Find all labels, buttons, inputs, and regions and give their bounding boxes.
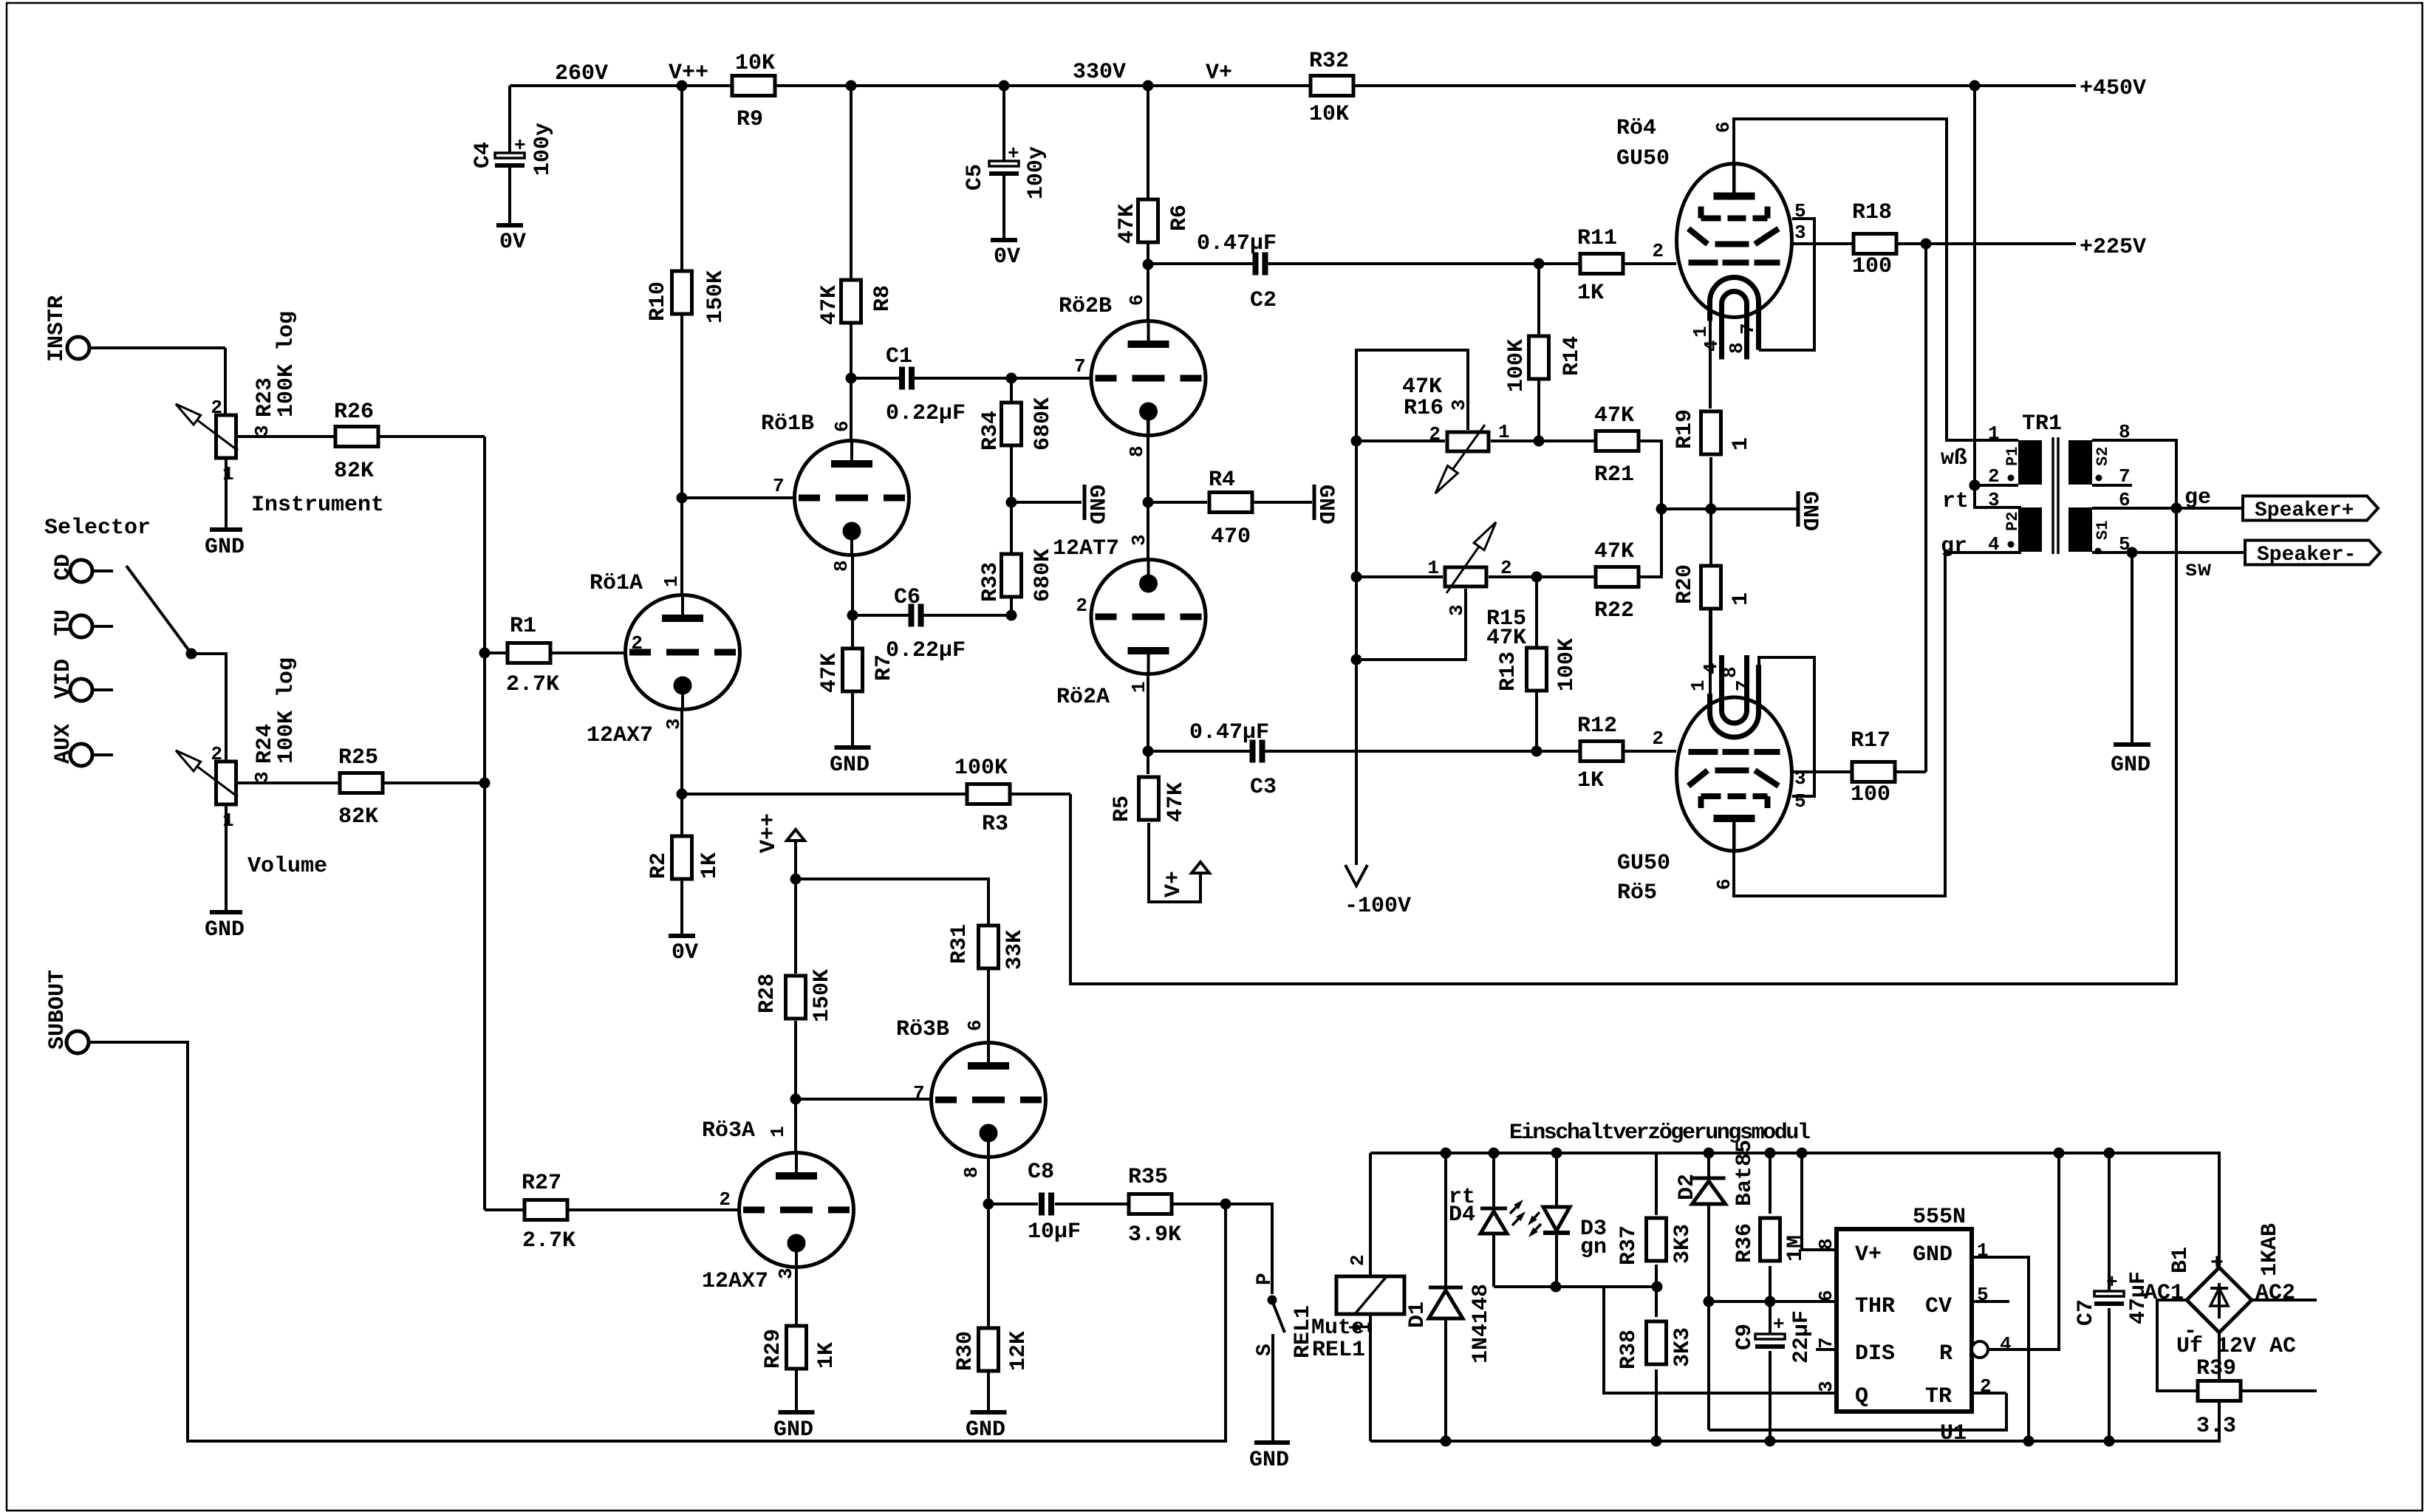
svg-text:DIS: DIS (1855, 1341, 1895, 1366)
connector CD (51, 554, 113, 582)
svg-text:R9: R9 (737, 107, 763, 132)
power -100V arrow (1345, 865, 1411, 919)
svg-text:GU50: GU50 (1617, 851, 1670, 876)
svg-text:GND: GND (966, 1417, 1005, 1443)
svg-text:3: 3 (251, 425, 273, 437)
svg-text:1: 1 (1729, 592, 1754, 606)
potentiometer R24 100K log (176, 657, 299, 912)
power V+ arrow at R5 (1161, 862, 1209, 897)
svg-text:TU: TU (51, 609, 76, 636)
capacitor C6 0.22uF (847, 585, 1017, 663)
svg-text:gn: gn (1580, 1235, 1607, 1260)
resistor R4 470 (1143, 468, 1313, 550)
svg-text:2: 2 (1988, 465, 2000, 488)
svg-text:Rö1B: Rö1B (761, 411, 814, 437)
svg-text:12AX7: 12AX7 (587, 723, 653, 748)
svg-text:3.3: 3.3 (2196, 1414, 2236, 1439)
svg-text:6: 6 (1712, 121, 1735, 133)
svg-text:100y: 100y (1024, 146, 1049, 199)
svg-text:Rö5: Rö5 (1617, 880, 1657, 906)
svg-text:0V: 0V (672, 940, 698, 965)
svg-text:R36: R36 (1732, 1223, 1757, 1263)
connector SUBOUT (45, 970, 89, 1053)
wire 260V/330V top rail (510, 84, 2076, 87)
resistor R20 1 (1673, 509, 1754, 665)
svg-text:D1: D1 (1405, 1301, 1430, 1328)
svg-text:150K: 150K (703, 270, 728, 324)
svg-text:3: 3 (1448, 399, 1470, 411)
resistor R2 1K (646, 710, 722, 936)
wire input bus x=656 (479, 437, 491, 1210)
wire D2/TR row (1709, 1393, 2006, 1430)
svg-text:C3: C3 (1250, 775, 1277, 800)
wire feedback from R3 to speaker node (1070, 510, 2176, 984)
svg-text:R17: R17 (1851, 728, 1890, 753)
svg-text:GND: GND (205, 917, 245, 943)
svg-text:ge: ge (2184, 485, 2211, 510)
svg-text:1: 1 (1988, 423, 2000, 445)
svg-text:260V: 260V (555, 61, 608, 86)
svg-text:R4: R4 (1209, 468, 1235, 493)
tube Rö2A (1056, 420, 1206, 710)
ground 0V of C4 (496, 225, 526, 255)
svg-text:+: + (1008, 143, 1019, 165)
potentiometer R23 100K log (176, 311, 299, 530)
wire TR1 pin7 stub (2092, 484, 2132, 487)
svg-text:3: 3 (1794, 222, 1806, 244)
rectifier B1 1KAB (2144, 1223, 2295, 1344)
resistor R13 100K (1496, 577, 1579, 751)
svg-text:1: 1 (767, 1126, 789, 1138)
svg-text:6: 6 (964, 1019, 986, 1031)
svg-text:2: 2 (1076, 595, 1087, 617)
svg-text:S2: S2 (2094, 447, 2112, 466)
node 12AT7 label (1053, 536, 1119, 561)
svg-text:R32: R32 (1309, 49, 1349, 74)
potentiometer R16 47K (1351, 350, 1545, 493)
svg-text:1: 1 (1498, 421, 1510, 443)
connector TU (51, 609, 113, 637)
svg-text:1: 1 (1690, 326, 1712, 338)
resistor R18 100 (1791, 200, 1924, 279)
svg-text:22µF: 22µF (1789, 1310, 1814, 1364)
capacitor C5 100y (963, 86, 1049, 240)
svg-text:1: 1 (222, 463, 234, 485)
resistor R22 47K (1537, 509, 1661, 623)
svg-text:100K: 100K (954, 756, 1008, 781)
wire THR row (1709, 1300, 1837, 1303)
svg-text:V++: V++ (756, 813, 782, 853)
svg-text:6: 6 (1126, 294, 1148, 306)
node Volume label (247, 854, 327, 879)
svg-text:INSTR: INSTR (44, 295, 69, 362)
resistor R26 82K (238, 400, 485, 484)
svg-text:R28: R28 (755, 974, 780, 1013)
svg-text:8: 8 (1719, 666, 1741, 678)
svg-text:2: 2 (211, 743, 222, 765)
svg-text:V+: V+ (1161, 871, 1186, 897)
ground GND of R30 (966, 1412, 1007, 1443)
svg-text:150K: 150K (810, 969, 835, 1022)
capacitor C7 47uF (2074, 1148, 2151, 1447)
svg-text:R8: R8 (870, 285, 895, 312)
tube Rö3B (796, 1017, 1046, 1178)
svg-text:100K: 100K (1554, 638, 1579, 691)
wire AC1 to R39 (2157, 1300, 2198, 1391)
resistor R36 1M (1732, 1148, 1808, 1307)
svg-text:R10: R10 (646, 281, 671, 321)
svg-text:R12: R12 (1577, 714, 1617, 739)
svg-text:Volume: Volume (247, 854, 327, 879)
svg-text:6: 6 (831, 420, 853, 432)
resistor R3 100K (682, 756, 1070, 837)
svg-text:47K: 47K (1115, 204, 1140, 244)
ground of R4 (1313, 485, 1338, 524)
svg-text:P2: P2 (2003, 512, 2022, 531)
wire LED cathode row (1494, 1282, 1663, 1293)
selector switch arm from CD (126, 566, 226, 760)
resistor R27 2.7K (485, 1171, 739, 1253)
svg-text:8: 8 (1815, 1238, 1837, 1250)
node Uf 12V AC label (2176, 1334, 2296, 1359)
svg-text:GU50: GU50 (1616, 146, 1670, 171)
svg-text:33K: 33K (1002, 930, 1028, 970)
switch REL1 mute contact (1226, 1204, 1285, 1441)
ground GND of R7 (830, 748, 871, 778)
svg-text:1K: 1K (1577, 281, 1604, 306)
ground GND of R23 (205, 530, 245, 560)
node 330V label (999, 60, 1127, 92)
resistor R34 680K (978, 373, 1056, 503)
svg-text:CV: CV (1925, 1294, 1952, 1319)
svg-text:3: 3 (1988, 489, 2000, 511)
svg-text:47K: 47K (1594, 539, 1634, 564)
wire R35 junction down to mute rail (1224, 1204, 1227, 1441)
svg-text:100: 100 (1852, 254, 1892, 279)
svg-text:Q: Q (1855, 1384, 1868, 1409)
ground GND of R29 (773, 1412, 815, 1443)
svg-text:3K3: 3K3 (1670, 1327, 1695, 1367)
svg-text:0.47µF: 0.47µF (1189, 720, 1269, 745)
svg-text:0.22µF: 0.22µF (886, 638, 966, 663)
capacitor C4 100y (471, 86, 556, 225)
svg-text:R21: R21 (1594, 462, 1634, 488)
resistor R11 1K (1534, 226, 1677, 306)
svg-text:R31: R31 (947, 924, 972, 964)
svg-text:V++: V++ (669, 61, 708, 86)
svg-text:AC2: AC2 (2255, 1281, 2295, 1306)
node V+ label at rail (1143, 61, 1233, 92)
svg-text:GND: GND (1913, 1242, 1953, 1268)
tube Rö1B (677, 378, 909, 572)
svg-text:C1: C1 (886, 344, 912, 369)
svg-text:THR: THR (1855, 1294, 1895, 1319)
svg-text:U1: U1 (1940, 1421, 1967, 1446)
tube Rö4 GU50 (1616, 116, 1806, 360)
resistor R29 1K (761, 1252, 839, 1412)
svg-text:GND: GND (1313, 485, 1338, 524)
svg-text:7: 7 (913, 1082, 925, 1104)
wire Rö4 cathode to R19 (1709, 302, 1712, 408)
resistor R14 100K (1504, 264, 1585, 441)
svg-text:100y: 100y (530, 123, 556, 176)
svg-text:555N: 555N (1913, 1205, 1966, 1230)
resistor R38 3K3 (1616, 1287, 1695, 1447)
transformer TR1 (1941, 411, 2131, 559)
svg-text:1N4148: 1N4148 (1469, 1284, 1494, 1364)
wire +450V down to TR1 pin2/pin3 (1969, 86, 2022, 507)
svg-text:7: 7 (1737, 323, 1759, 335)
svg-text:GND: GND (1249, 1448, 1289, 1473)
ground of R34/R33 junction (1006, 485, 1109, 524)
resistor R37 3K3 (1616, 1153, 1695, 1287)
svg-text:R39: R39 (2196, 1356, 2236, 1381)
svg-text:2: 2 (1500, 557, 1512, 579)
svg-text:5: 5 (1794, 790, 1806, 813)
ground 0V of R2 (669, 936, 698, 965)
resistor R30 12K (953, 1142, 1031, 1412)
svg-text:680K: 680K (1031, 397, 1056, 451)
svg-text:R: R (1939, 1341, 1953, 1366)
svg-text:2.7K: 2.7K (506, 672, 559, 697)
capacitor C9 22uF (1732, 1301, 1814, 1447)
svg-text:CD: CD (51, 554, 76, 581)
svg-text:8: 8 (1726, 342, 1748, 354)
svg-text:R33: R33 (978, 562, 1003, 602)
svg-text:100K log: 100K log (274, 657, 299, 764)
diode D1 1N4148 (1405, 1148, 1494, 1447)
svg-text:R3: R3 (982, 812, 1008, 837)
node 260V label (555, 61, 608, 86)
svg-text:47K: 47K (1594, 403, 1634, 428)
wire TR1 pin5 speaker- row (2092, 547, 2245, 584)
svg-text:2: 2 (1652, 728, 1664, 750)
svg-text:VID: VID (51, 659, 76, 699)
wire Rö4 anode to TR1 pin1 (1734, 119, 2018, 440)
wire SUBOUT to mute rail (89, 1042, 1226, 1441)
LED D4 rt (1449, 1148, 1526, 1287)
svg-text:1: 1 (1687, 680, 1709, 691)
svg-text:R22: R22 (1594, 598, 1634, 623)
svg-text:B1: B1 (2168, 1247, 2193, 1273)
svg-text:Rö2A: Rö2A (1056, 685, 1110, 710)
junction dot R8 column at rail (846, 81, 857, 92)
resistor R19 1 (1673, 409, 1754, 509)
svg-text:3: 3 (1815, 1381, 1837, 1392)
wire module GND bottom rail (1370, 1333, 2219, 1441)
tube Rö1A (587, 498, 740, 748)
svg-text:1: 1 (222, 810, 234, 832)
svg-text:82K: 82K (334, 459, 374, 484)
svg-text:Selector: Selector (44, 516, 151, 541)
svg-text:10K: 10K (735, 51, 775, 76)
resistor R1 2.7K (485, 614, 625, 697)
svg-text:P: P (1254, 1273, 1277, 1285)
svg-text:3: 3 (1128, 534, 1150, 546)
capacitor C1 0.22uF (846, 344, 1012, 426)
svg-text:C7: C7 (2074, 1299, 2099, 1326)
svg-text:47K: 47K (1486, 626, 1526, 651)
wire module V+ top rail (1370, 1153, 2219, 1268)
ground 0V of C5 (991, 240, 1020, 270)
svg-text:3.9K: 3.9K (1128, 1222, 1181, 1248)
svg-text:D4: D4 (1449, 1203, 1475, 1228)
svg-text:GND: GND (773, 1417, 813, 1443)
svg-text:1K: 1K (1577, 768, 1604, 793)
svg-text:47K: 47K (817, 285, 842, 325)
svg-text:AUX: AUX (51, 724, 76, 764)
node Selector label (44, 516, 151, 541)
svg-text:+450V: +450V (2080, 76, 2146, 101)
wire V++ to R31 (790, 874, 989, 925)
svg-text:R20: R20 (1673, 564, 1698, 604)
connector VID (51, 659, 113, 701)
svg-text:100: 100 (1851, 782, 1890, 807)
resistor R7 47K (817, 555, 897, 748)
svg-text:3K3: 3K3 (1670, 1224, 1695, 1264)
node +225V label (1921, 235, 2147, 260)
svg-text:R19: R19 (1673, 409, 1698, 449)
svg-text:4: 4 (2000, 1333, 2012, 1355)
svg-text:7: 7 (1074, 355, 1086, 377)
ground GND of mute switch (1249, 1443, 1290, 1473)
resistor R35 3.9K (1128, 1165, 1231, 1248)
svg-text:7: 7 (773, 475, 785, 497)
wire TR1 pin6 speaker+ row (2092, 485, 2243, 514)
node V++ label at rail (669, 61, 708, 92)
svg-text:S1: S1 (2094, 521, 2112, 540)
tube Rö3A (702, 1094, 854, 1295)
svg-text:C9: C9 (1732, 1324, 1757, 1350)
wire Q output to LED row (1604, 1287, 1837, 1393)
svg-text:R16: R16 (1404, 396, 1444, 421)
svg-text:Bat85: Bat85 (1732, 1140, 1757, 1206)
svg-text:330V: 330V (1073, 60, 1126, 85)
svg-text:R13: R13 (1496, 651, 1521, 691)
junction dot TR1 pin2 (1969, 480, 1981, 491)
relay coil REL1 (1291, 1153, 1404, 1441)
LED D3 gn (1528, 1148, 1607, 1287)
tube Rö5 GU50 (1617, 655, 1806, 906)
svg-text:R26: R26 (334, 400, 374, 425)
svg-text:R37: R37 (1616, 1225, 1641, 1265)
svg-text:8: 8 (830, 560, 853, 572)
svg-text:TR1: TR1 (2022, 411, 2062, 437)
wire TR1 pin8 to speaker+ (2092, 440, 2176, 510)
capacitor C8 10uF (988, 1160, 1128, 1245)
svg-text:Rö4: Rö4 (1616, 116, 1656, 141)
resistor R17 100 (1791, 728, 1926, 807)
resistor R12 1K (1531, 714, 1677, 793)
svg-text:C4: C4 (471, 142, 496, 168)
wire +225V rail down to R17 (1924, 244, 1927, 772)
connector Speaker- flag (2245, 541, 2380, 567)
svg-text:47K: 47K (1402, 374, 1442, 400)
svg-text:S: S (1254, 1344, 1277, 1356)
svg-text:47K: 47K (817, 653, 842, 693)
svg-text:2: 2 (1429, 423, 1441, 445)
svg-text:R11: R11 (1577, 226, 1617, 251)
svg-text:3: 3 (1446, 604, 1468, 616)
svg-text:1M: 1M (1783, 1235, 1808, 1262)
wire Rö5 cathode to R20 (1709, 609, 1712, 712)
svg-text:2: 2 (1347, 1254, 1369, 1266)
svg-text:Uf 12V AC: Uf 12V AC (2176, 1334, 2296, 1359)
svg-text:8: 8 (960, 1166, 983, 1178)
svg-text:R6: R6 (1167, 205, 1192, 231)
wire Rö5 anode to TR1 pin4 (1734, 553, 2021, 896)
svg-text:R25: R25 (338, 745, 378, 770)
resistor R32 10K (1309, 49, 1353, 127)
svg-text:P1: P1 (2003, 447, 2022, 466)
svg-text:D2: D2 (1675, 1174, 1700, 1200)
resistor R9 10K (732, 51, 775, 132)
svg-text:0V: 0V (994, 244, 1020, 270)
svg-text:GND: GND (205, 535, 245, 560)
svg-text:1: 1 (660, 575, 683, 587)
svg-text:R2: R2 (646, 852, 672, 879)
svg-text:0.22µF: 0.22µF (886, 401, 966, 426)
svg-text:R5: R5 (1110, 796, 1135, 822)
svg-text:R35: R35 (1128, 1165, 1168, 1190)
svg-text:V+: V+ (1855, 1242, 1882, 1268)
wire C1 row to tube grid (1011, 377, 1091, 380)
svg-text:6: 6 (1713, 878, 1735, 890)
svg-text:7: 7 (1815, 1337, 1837, 1349)
svg-text:10K: 10K (1309, 102, 1349, 127)
svg-text:1: 1 (1427, 557, 1439, 579)
svg-text:R7: R7 (872, 654, 897, 681)
ground GND of speaker- (2111, 553, 2150, 778)
svg-text:12AT7: 12AT7 (1053, 536, 1119, 561)
tube Rö2B (1059, 259, 1206, 458)
node Instrument label (251, 493, 384, 518)
svg-text:TR: TR (1925, 1384, 1952, 1409)
svg-text:R14: R14 (1559, 336, 1585, 376)
svg-text:R29: R29 (761, 1329, 786, 1369)
svg-text:2: 2 (1652, 240, 1664, 262)
connector AUX (51, 724, 113, 766)
svg-text:0.47µF: 0.47µF (1197, 231, 1277, 256)
wire AC2 output (2252, 1299, 2317, 1301)
svg-text:R27: R27 (522, 1171, 561, 1196)
svg-text:Speaker+: Speaker+ (2255, 499, 2354, 522)
wire Rö5 screen loop to cathode (1759, 657, 1814, 796)
resistor R21 47K (1539, 403, 1661, 509)
wire Rö4 screen loop to cathode (1759, 219, 1814, 350)
svg-text:2: 2 (719, 1188, 731, 1211)
capacitor C2 0.47uF (1148, 231, 1539, 313)
svg-text:Rö3A: Rö3A (702, 1118, 755, 1143)
svg-text:rt: rt (1942, 489, 1969, 514)
connector Speaker+ flag (2243, 496, 2378, 523)
svg-text:AC1: AC1 (2144, 1281, 2184, 1306)
svg-text:470: 470 (1211, 524, 1251, 550)
svg-text:R18: R18 (1852, 200, 1892, 225)
svg-text:gr: gr (1941, 534, 1967, 559)
resistor R28 150K (755, 969, 835, 1153)
svg-text:V+: V+ (1206, 61, 1232, 86)
svg-text:+225V: +225V (2080, 235, 2146, 260)
svg-text:2: 2 (631, 632, 643, 654)
svg-text:C5: C5 (963, 164, 988, 191)
resistor R39 3.3 (2196, 1356, 2317, 1439)
resistor R33 680K (978, 502, 1056, 615)
svg-text:4: 4 (1988, 533, 2000, 555)
svg-text:+: + (514, 134, 526, 157)
svg-text:12AX7: 12AX7 (702, 1269, 768, 1294)
svg-text:R34: R34 (978, 411, 1003, 451)
